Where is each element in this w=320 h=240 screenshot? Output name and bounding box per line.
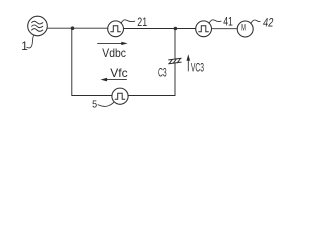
- wire: junction A down left branch: [71, 28, 73, 95]
- wire: source to converter 21: [47, 27, 107, 29]
- leader to label 1: [27, 35, 34, 48]
- capacitor C3 (hatched plates): [169, 58, 182, 64]
- AC source 1 (circle with wave lines): [28, 16, 48, 36]
- svg-text:C3: C3: [158, 67, 167, 79]
- arrow Vfc (points left): [101, 78, 127, 82]
- svg-text:Vdbc: Vdbc: [102, 46, 126, 60]
- wire: junction B down to capacitor C3: [174, 29, 176, 59]
- svg-text:41: 41: [223, 15, 233, 28]
- arrow Vdbc (points right): [98, 42, 128, 45]
- wire: converter 21 to inverter 41: [124, 28, 196, 30]
- converter 5 (circle with pulse symbol): [112, 88, 128, 104]
- inverter 41 (circle with pulse symbol): [196, 21, 212, 37]
- wire: bottom bus left segment: [72, 95, 112, 97]
- leader to label 5: [98, 102, 114, 106]
- svg-text:21: 21: [137, 15, 147, 29]
- wire: inverter 41 to motor M: [212, 28, 238, 30]
- svg-text:VC3: VC3: [191, 61, 204, 75]
- svg-text:1: 1: [21, 39, 28, 53]
- svg-text:M: M: [241, 23, 246, 34]
- node junction B: [174, 27, 178, 31]
- svg-text:5: 5: [92, 99, 97, 111]
- leader to label 41: [209, 20, 221, 23]
- svg-text:Vfc: Vfc: [110, 66, 127, 80]
- leader to label 21: [121, 20, 135, 23]
- converter 21 (circle with pulse symbol): [108, 21, 124, 37]
- node junction A: [71, 26, 75, 30]
- svg-text:42: 42: [262, 15, 274, 29]
- wire: bottom bus right segment: [128, 95, 175, 97]
- arrow VC3 (points up): [187, 54, 191, 71]
- leader to label 42: [251, 20, 260, 23]
- motor M 42 (circle with M): [237, 21, 253, 37]
- wire: capacitor C3 down to bottom bus: [174, 63, 176, 96]
